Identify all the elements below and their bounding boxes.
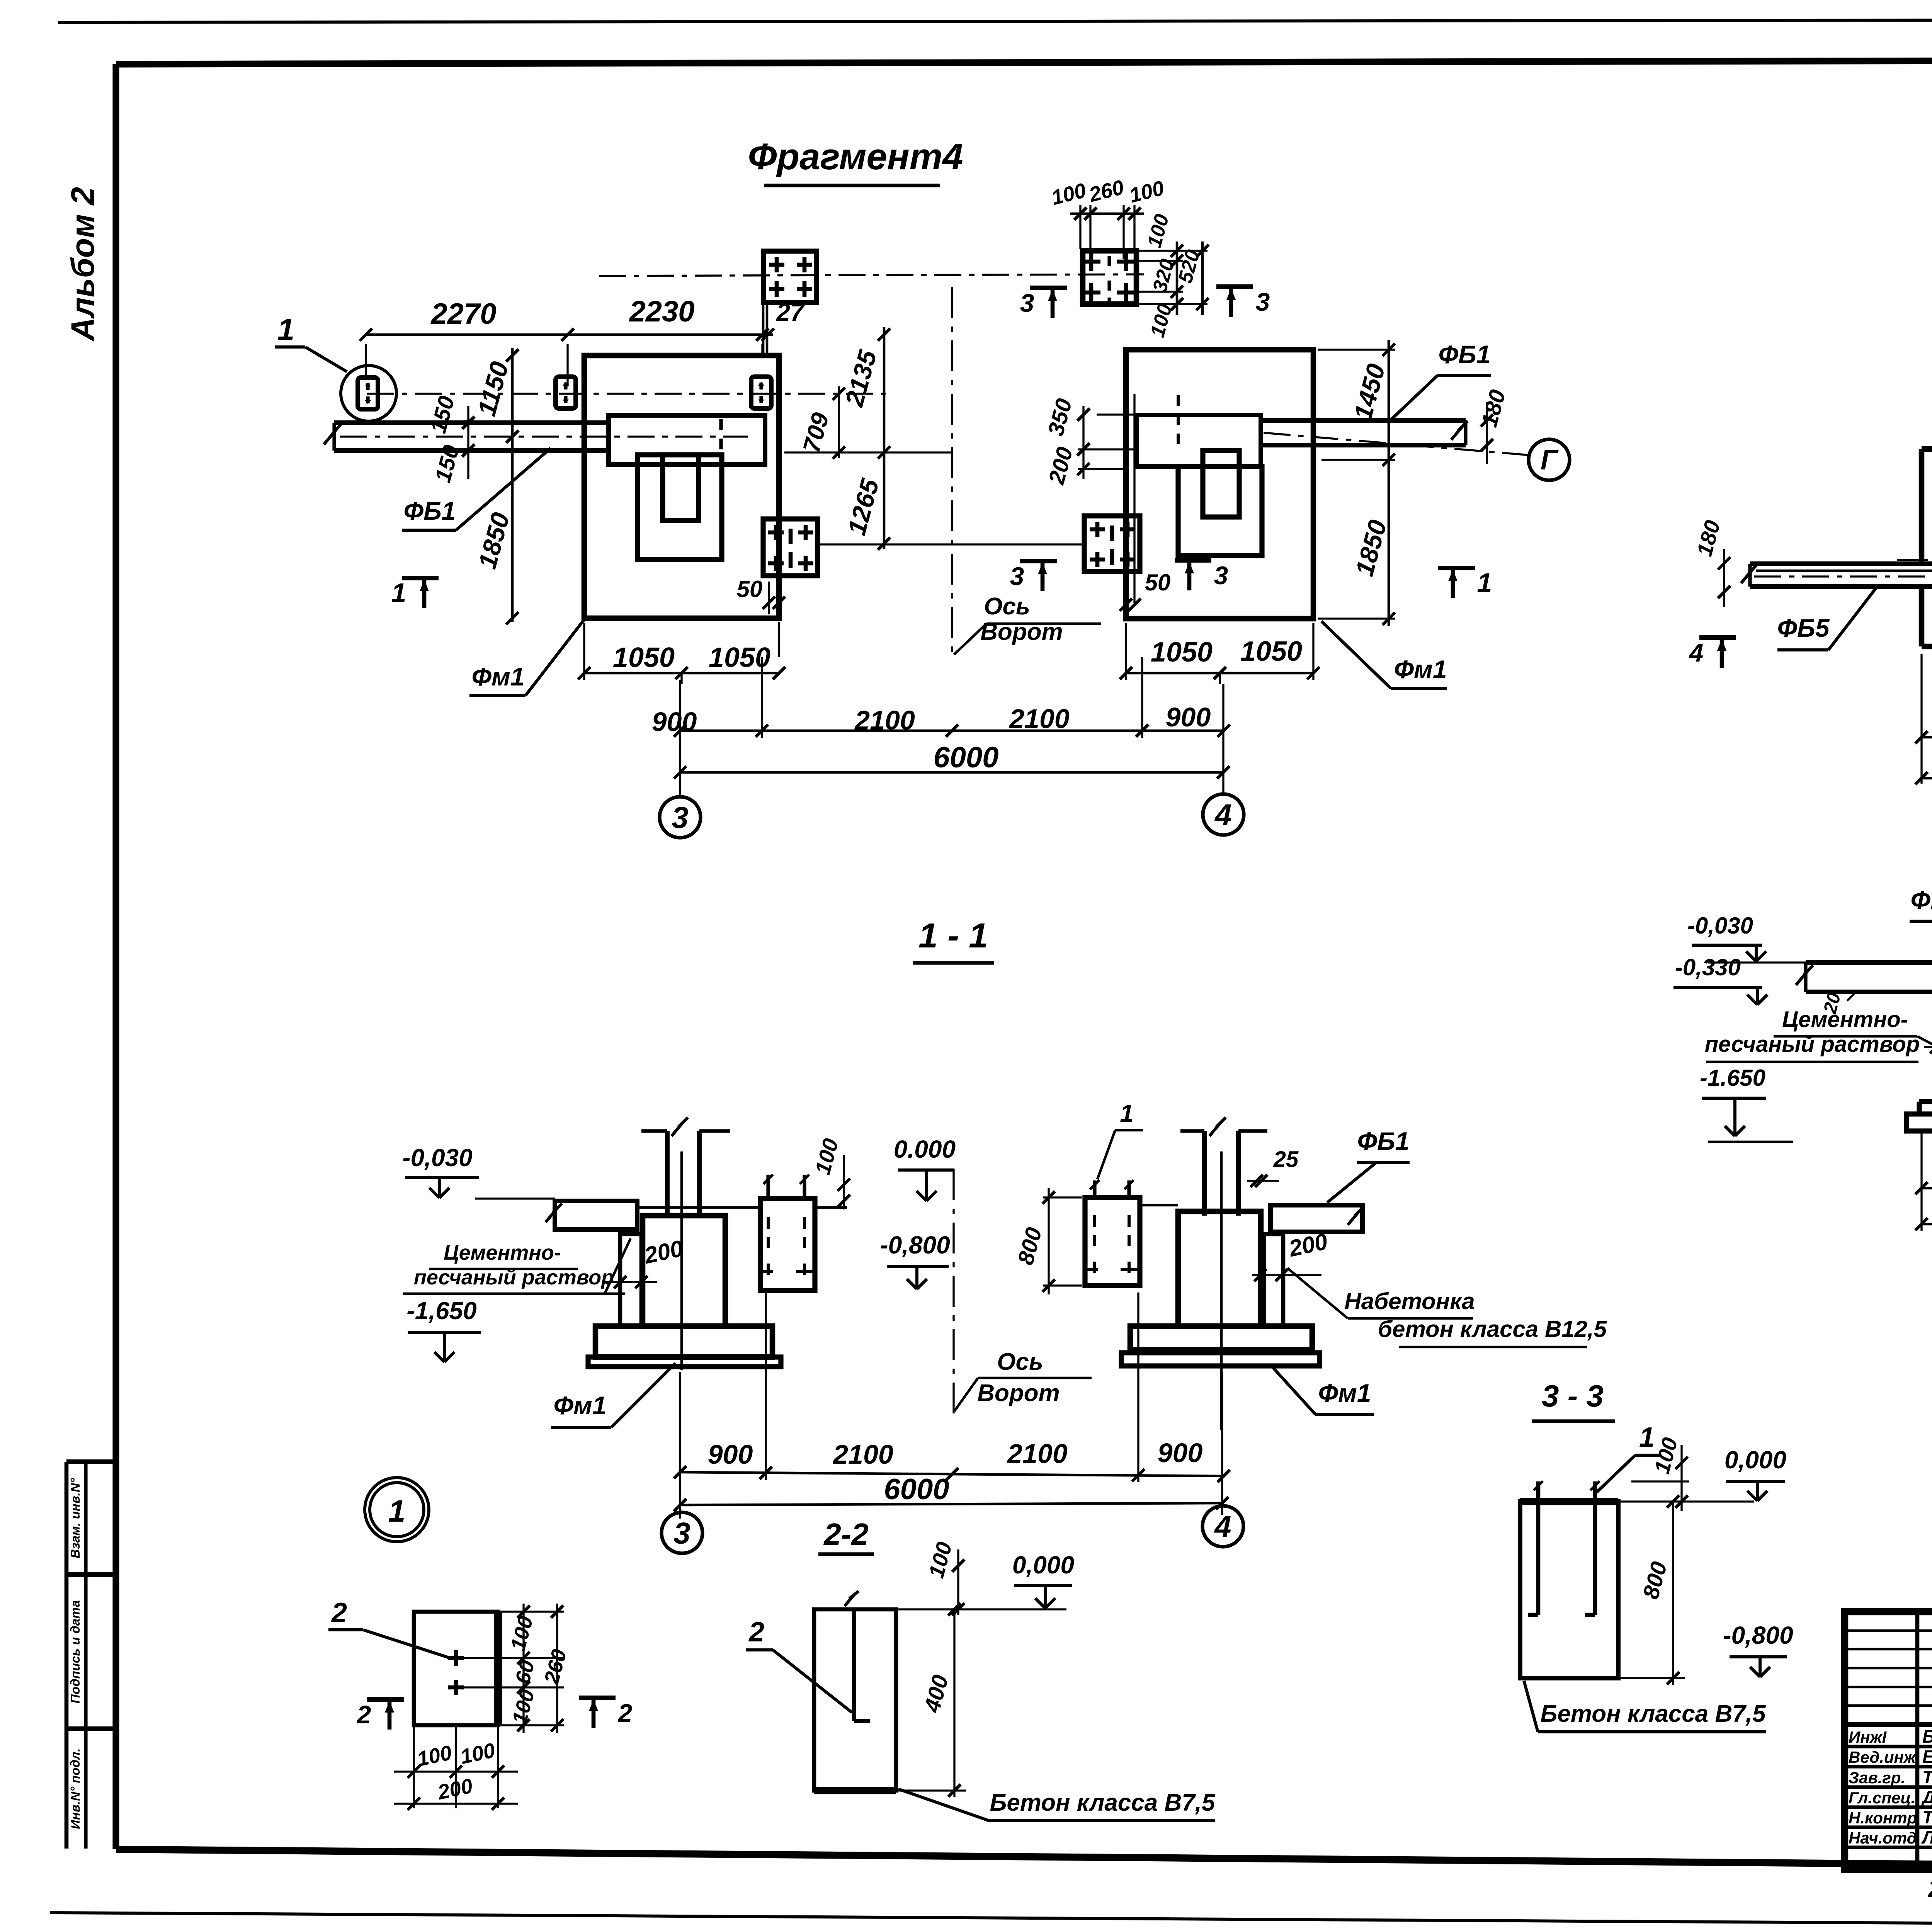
column (section 1-1 right) (1180, 1117, 1267, 1216)
svg-text:Фм1: Фм1 (553, 1391, 606, 1420)
dimension 800 (section right) (1013, 1188, 1082, 1294)
ось ворот (section 1-1) (952, 1169, 954, 1417)
floor level line (section left) (637, 1206, 847, 1209)
svg-text:песчаный раствор: песчаный раствор (414, 1266, 614, 1289)
svg-text:-0,800: -0,800 (1723, 1621, 1793, 1649)
dimension text 1050 c (1151, 637, 1213, 668)
dimension text 1050 b (709, 642, 770, 673)
svg-text:6000: 6000 (884, 1473, 949, 1506)
axis circle 3 (plan) (660, 797, 701, 838)
text 25388-02 22 below title block (1928, 1875, 1932, 1903)
svg-text:Трубникова: Трубникова (1922, 1807, 1932, 1827)
dimension text 6000 (section) (884, 1473, 949, 1506)
foundation Фм1 right beam pocket (1136, 415, 1261, 466)
beam ФБ5 left (plan) (1741, 563, 1932, 587)
title section 3-3 (1532, 1379, 1615, 1421)
foundation right pocket dashed line (1177, 395, 1180, 448)
detail circle 1 (365, 1478, 429, 1542)
label ФБ5 (section 4-4) (1910, 886, 1932, 961)
vertical label Альбом 2 (65, 187, 101, 342)
svg-text:2100: 2100 (1009, 704, 1070, 734)
extension line y1407 (819, 543, 1084, 545)
label Фм1 (section right) (1273, 1368, 1374, 1414)
dimension 200 (section right) (1252, 1228, 1330, 1281)
scan sheet bottom edge line (50, 1913, 1932, 1927)
detail plate 2 bolts (448, 1650, 464, 1695)
svg-text:-0,030: -0,030 (1687, 913, 1753, 939)
level ext line -0,030 (475, 1197, 555, 1199)
centerline frag5 horizontal (1897, 560, 1932, 561)
dimension 1600/2600 (4-4) (1915, 1133, 1932, 1231)
dimension text 2100 b (1009, 704, 1070, 734)
beam ФБ1 left (plan) (324, 423, 609, 451)
dimension 100 (detail 3-3) (1631, 1435, 1689, 1511)
dimension 800 (detail 3-3) (1621, 1495, 1685, 1685)
label ФБ1 (plan left) (402, 448, 551, 530)
section mark 4 (frag5 left) (1689, 638, 1736, 668)
dimension text 27 (776, 298, 805, 326)
title section 1-1 (913, 917, 994, 963)
svg-text:-0,330: -0,330 (1675, 954, 1741, 980)
dimension extension lines top (366, 344, 762, 386)
svg-text:2270: 2270 (430, 298, 496, 330)
top plate drop lines (763, 305, 767, 355)
scan sheet top edge line (58, 19, 1932, 22)
svg-text:900: 900 (1158, 1438, 1203, 1468)
dimension 25 (section right) (1247, 1147, 1299, 1187)
callout 2 (detail) (328, 1597, 451, 1658)
dimension text 2100 c (832, 1439, 893, 1469)
dimension 200 (section left) (603, 1235, 685, 1288)
svg-text:Вед.инж: Вед.инж (1849, 1748, 1917, 1766)
dimension 400 (detail 2-2) (898, 1603, 966, 1797)
dimension 180 (frag5 beam left) (1692, 518, 1750, 607)
dimension 100 (detail 2-2) (924, 1539, 964, 1616)
level mark 0.000 (section) (894, 1135, 956, 1201)
attribute cell text Подпись и дата (68, 1600, 82, 1704)
detail 2-2 hook bar (845, 1591, 870, 1721)
beam ФБ1 right centerline (1264, 433, 1530, 455)
section mark 2 (detail right) (579, 1698, 633, 1728)
pedestal Фм1 (section left) (643, 1216, 725, 1326)
title block main horizontal line (1845, 1722, 1932, 1727)
foundation Фм1 left outline (584, 355, 779, 618)
dimension text 2100 a (854, 705, 915, 735)
svg-text:-0,030: -0,030 (402, 1144, 472, 1172)
detail 3-3 outline (1520, 1502, 1618, 1678)
svg-text:Подпись и дата: Подпись и дата (68, 1600, 82, 1704)
axis circle 4 (section) (1202, 1506, 1243, 1547)
svg-text:2100: 2100 (832, 1439, 893, 1469)
dimension line 2135/1265 (right of left fdn) (878, 327, 890, 550)
dimension text 2100 d (1007, 1439, 1068, 1469)
section mark 3 (bottom left) (1010, 561, 1057, 591)
svg-text:27: 27 (776, 298, 805, 326)
label Цементно-песчаный раствор (4-4) (1705, 1007, 1932, 1062)
top anchor plate (right foundation) (1082, 251, 1136, 304)
dimension text 2230 (628, 295, 694, 328)
svg-text:0.000: 0.000 (894, 1135, 956, 1163)
base slab Фм1 (section left) (588, 1357, 781, 1367)
beam ФБ1 centerline (340, 435, 748, 437)
foundation Фм7 body (section 4-4) (1919, 977, 1932, 1114)
svg-text:ИнжI: ИнжI (1849, 1728, 1887, 1746)
svg-text:Ворот: Ворот (977, 1380, 1060, 1406)
svg-text:Зав.гр.: Зав.гр. (1849, 1769, 1905, 1787)
extension line 50 right fdn (1133, 394, 1135, 603)
column centerline (section 1-1 right) (1220, 1151, 1223, 1430)
foundation Фм1 right outline (1126, 350, 1313, 619)
svg-text:Трубникова: Трубникова (1922, 1767, 1932, 1787)
dimension line 1050/1050 (left fdn) (578, 623, 785, 684)
svg-text:2100: 2100 (854, 705, 915, 735)
callout 2 (detail 2-2) (746, 1617, 852, 1713)
svg-text:2: 2 (331, 1597, 347, 1628)
attribute cell text Инв. № подл. (68, 1748, 82, 1829)
svg-text:1050: 1050 (1240, 636, 1302, 667)
foundation Фм1 left pocket dashed end (719, 419, 723, 462)
svg-text:Фм1: Фм1 (1318, 1379, 1371, 1407)
anchor bolts (section left) (764, 1175, 809, 1199)
svg-text:1: 1 (1477, 568, 1492, 598)
svg-text:Бетон класса В7,5: Бетон класса В7,5 (1541, 1701, 1766, 1727)
section mark 1 (plan left) (391, 578, 439, 608)
level 0,000 (detail 2-2) (898, 1551, 1074, 1609)
level mark -0,030 (402, 1144, 479, 1198)
dimension text 2270 (430, 298, 496, 330)
dimension text 1450 (1348, 361, 1391, 423)
label Бетон класса В7,5 (detail 3-3) (1524, 1681, 1766, 1732)
svg-text:3: 3 (673, 1516, 690, 1550)
plate dims 100 260 100 (top) (1049, 176, 1167, 259)
dimension text 1050 a (613, 642, 675, 673)
dimension 250 (4-4) (1924, 1012, 1932, 1053)
svg-text:Егоров: Егоров (1922, 1747, 1932, 1767)
mortar strip (section left) (620, 1234, 641, 1326)
section mark 3 (bottom right) (1175, 560, 1228, 590)
svg-text:1 - 1: 1 - 1 (918, 917, 988, 955)
plate E leader line (0, 0, 0, 0)
ось ворот centerline (951, 287, 953, 656)
foundation Фм7 base slab (4-4) (1906, 1114, 1932, 1131)
beam ФБ5 centerline (1754, 575, 1932, 577)
title block signature rows text (1849, 1726, 1932, 1847)
dimension 20 (4-4) (1820, 990, 1855, 1016)
foundation Фм1 left beam pocket (609, 415, 765, 464)
svg-text:Гл.спец.: Гл.спец. (1849, 1789, 1915, 1807)
dimension text 900 a (652, 707, 697, 737)
level -0,800 (detail 3-3) (1723, 1621, 1793, 1677)
section mark 3 (top right) (1216, 287, 1270, 317)
label Ось ворот (section 1-1) (954, 1349, 1092, 1411)
dimension line 900/2100/2100/900 (section) (674, 1293, 1230, 1482)
svg-text:6000: 6000 (933, 741, 998, 774)
svg-text:Н.контр: Н.контр (1849, 1809, 1917, 1827)
foundation Фм1 right U-shape inner (1203, 451, 1239, 517)
dimension 4200 (4-4) (1915, 1189, 1932, 1230)
dimension 1450/1850 (right fdn) (1318, 340, 1395, 626)
svg-text:ФБ1: ФБ1 (1439, 340, 1491, 369)
dimension text 1050 d (1240, 636, 1302, 667)
label Цементно-песчаный раствор (1-1) (403, 1238, 631, 1294)
svg-text:-1.650: -1.650 (1700, 1065, 1765, 1091)
svg-text:1: 1 (388, 1494, 406, 1528)
svg-text:Лебедев: Лебедев (1921, 1827, 1932, 1847)
svg-text:Бурмистрова: Бурмистрова (1922, 1726, 1932, 1747)
svg-text:1: 1 (1120, 1099, 1134, 1127)
foundation Фм7 outline (plan) (1922, 449, 1932, 646)
column centerline (section 1-1 left) (680, 1151, 683, 1370)
svg-text:900: 900 (1166, 702, 1211, 732)
level -0,330 (4-4) (1673, 954, 1767, 1005)
svg-text:25: 25 (1273, 1147, 1299, 1172)
anchor plate D (left fdn right edge) (763, 519, 818, 576)
svg-text:4: 4 (1214, 798, 1231, 832)
svg-text:0,000: 0,000 (1012, 1551, 1074, 1579)
top anchor plate (left foundation) (764, 251, 816, 303)
detail 3-3 anchor bolts (1528, 1481, 1600, 1615)
drawing frame top line (116, 60, 1932, 64)
anchor plate B (plan left) (556, 377, 576, 408)
beam ФБ1 (section right) (1270, 1205, 1364, 1232)
svg-text:Фм1: Фм1 (1394, 655, 1447, 684)
dimension text 900 b (1166, 702, 1211, 732)
anchor bolts (section right) (1090, 1180, 1134, 1197)
svg-text:Бетон класса В7,5: Бетон класса В7,5 (990, 1789, 1216, 1816)
svg-text:1: 1 (391, 578, 406, 608)
foundation Фм1 left U-shape outer (638, 455, 722, 560)
anchor plate C (plan left) (751, 377, 771, 408)
dimension 150/150 (beam) (425, 393, 474, 485)
pedestal Фм1 (section right) (1178, 1211, 1261, 1326)
svg-text:3: 3 (672, 800, 688, 834)
label ФБ5 (frag5 left) (1777, 588, 1876, 650)
beam ФБ1 (section left) (546, 1201, 637, 1230)
svg-text:50: 50 (737, 576, 763, 602)
dimension text 6000 (plan) (933, 741, 998, 774)
svg-text:2100: 2100 (1007, 1439, 1068, 1469)
dimension 100 (section left) (810, 1136, 850, 1209)
axis circle 3 (section) (662, 1512, 702, 1553)
svg-text:Взам. инв.N°: Взам. инв.N° (68, 1478, 82, 1558)
svg-text:Дыба: Дыба (1921, 1787, 1932, 1807)
svg-text:1: 1 (277, 312, 295, 347)
dimension 50 (left fdn) (737, 576, 785, 657)
svg-text:2: 2 (356, 1700, 371, 1729)
label Бетон класса В7,5 (detail 2-2) (898, 1789, 1216, 1821)
svg-text:3: 3 (1020, 289, 1034, 317)
anchor plate E (right fdn left edge) (1084, 516, 1140, 571)
svg-text:3: 3 (1010, 562, 1024, 590)
svg-text:2: 2 (617, 1699, 633, 1727)
svg-text:900: 900 (652, 707, 697, 737)
drawing frame left line (112, 64, 119, 1849)
svg-text:2-2: 2-2 (823, 1517, 869, 1551)
anchor box (section right) (1085, 1197, 1140, 1286)
dimension text 900 c (708, 1439, 753, 1469)
dimension line 1150/1850 (left) (506, 348, 519, 624)
label Ось Ворот (plan) (954, 593, 1101, 655)
dimension 1600/2600 (frag5) (1915, 654, 1932, 784)
step Фм1 (section left) (595, 1326, 772, 1357)
title block signature rows (1845, 1747, 1932, 1847)
title block upper thin rows (1845, 1631, 1932, 1706)
dimension line 1050/1050 (right fdn) (1120, 623, 1320, 684)
svg-text:Фрагмент4: Фрагмент4 (748, 136, 963, 177)
dimension 180 (beam right) (1476, 387, 1510, 464)
svg-text:25388-02 22: 25388-02 22 (1928, 1875, 1932, 1903)
axis circle 4 (plan) (1203, 794, 1244, 835)
svg-text:бетон класса В12,5: бетон класса В12,5 (1378, 1316, 1607, 1342)
svg-text:4: 4 (1689, 638, 1704, 667)
dimension text 2135 (840, 347, 882, 410)
beam ФБ1 right (plan) (1261, 420, 1468, 445)
callout 1 (detail 3-3) (1597, 1422, 1662, 1492)
callout circle pos.1 (341, 366, 396, 421)
beam ФБ5 (section 4-4) (1796, 963, 1932, 992)
foundation Фм1 right U-shape outer (1178, 466, 1262, 556)
axis circle Г (1529, 439, 1570, 480)
dimension line 2270/2230 (360, 328, 774, 341)
svg-text:песчаный раствор: песчаный раствор (1705, 1032, 1920, 1057)
level -0,030 (4-4) (1687, 913, 1806, 963)
anchor box (section left) (760, 1199, 815, 1291)
detail 2-2 outline (814, 1609, 896, 1791)
svg-text:Набетонка: Набетонка (1344, 1288, 1475, 1314)
svg-text:Альбом 2: Альбом 2 (65, 187, 101, 342)
svg-text:ФБ5: ФБ5 (1777, 614, 1830, 642)
svg-text:1050: 1050 (1151, 637, 1213, 668)
svg-text:ФБ1: ФБ1 (1357, 1127, 1410, 1155)
label ФБ1 (section right) (1327, 1127, 1410, 1202)
base slab Фм1 (section right) (1121, 1353, 1320, 1366)
svg-text:Инв.N° подл.: Инв.N° подл. (68, 1748, 82, 1829)
title Фрагмент 4 (748, 136, 963, 185)
detail plate 2 outline (414, 1612, 498, 1725)
level mark -1,650 (406, 1297, 481, 1362)
main title block frame (1845, 1612, 1932, 1869)
svg-text:50: 50 (1145, 570, 1171, 595)
svg-text:1050: 1050 (613, 642, 675, 673)
attribute cell text Взам. инв. № (68, 1478, 82, 1558)
dimension line 709 (798, 386, 845, 459)
label Набетонка бетон класса В12,5 (1287, 1268, 1607, 1347)
svg-text:ФБ5: ФБ5 (1911, 886, 1932, 914)
dimension 4200 (frag5) (1915, 654, 1932, 784)
svg-text:1: 1 (1639, 1422, 1655, 1453)
level mark -0,800 (section) (880, 1231, 950, 1289)
dimension line 6000 (plan) (674, 680, 1230, 795)
dimension 350/200 (right fdn) (1043, 396, 1136, 487)
mortar strip (section right) (1264, 1234, 1283, 1326)
title block signature column lines (1917, 1612, 1932, 1869)
svg-text:ФБ1: ФБ1 (404, 497, 456, 525)
floor level line (section right) (1141, 1204, 1178, 1207)
detail 2 dims bottom (394, 1727, 518, 1810)
foundation Фм1 left U-shape inner (663, 455, 699, 520)
svg-text:Фм1: Фм1 (471, 662, 524, 691)
svg-text:Ось: Ось (997, 1349, 1043, 1375)
section mark 2 (detail left) (356, 1699, 404, 1730)
callout 1 (section right) (1097, 1099, 1143, 1179)
label Фм1 (section left) (551, 1363, 675, 1427)
label ФБ1 (plan right) (1391, 340, 1491, 420)
dimension text 1850 left (473, 509, 515, 571)
plate dims 100 320 100 520 (right) (1128, 212, 1209, 340)
svg-text:2: 2 (748, 1617, 764, 1648)
svg-text:Цементно-: Цементно- (444, 1241, 561, 1264)
svg-text:900: 900 (708, 1439, 753, 1469)
title section 2-2 (818, 1517, 874, 1554)
svg-text:2230: 2230 (628, 295, 694, 328)
drawing frame bottom line (116, 1849, 1932, 1870)
section mark 3 (top left) (1020, 288, 1067, 318)
anchor plate in callout circle (358, 378, 378, 409)
dimension line 900/2100/2100/900 (plan) (674, 657, 1230, 738)
svg-text:Нач.отд: Нач.отд (1849, 1829, 1917, 1847)
label Фм1 (plan right) (1321, 621, 1447, 689)
svg-text:Ось: Ось (984, 593, 1030, 620)
dimension text 1265 (842, 475, 884, 538)
svg-text:-0,800: -0,800 (880, 1231, 950, 1259)
dimension text 900 d (1158, 1438, 1203, 1468)
svg-text:Цементно-: Цементно- (1782, 1007, 1908, 1032)
plates centerline (plan left) (367, 393, 886, 395)
svg-text:0,000: 0,000 (1725, 1446, 1786, 1474)
extension line y1171 (784, 451, 952, 453)
dimension text 1850 right (1350, 517, 1392, 579)
dimension text 1150 (472, 359, 514, 419)
level -1.650 (4-4) (1700, 1065, 1793, 1142)
level 0,000 (detail 3-3) (1621, 1446, 1786, 1502)
dimension line 6000 (section) (674, 1372, 1228, 1519)
svg-text:-1,650: -1,650 (406, 1297, 476, 1325)
label Фм1 (plan left) (469, 617, 586, 696)
step Фм1 (section right) (1130, 1326, 1312, 1350)
svg-text:3 - 3: 3 - 3 (1542, 1379, 1604, 1413)
svg-text:3: 3 (1256, 287, 1270, 316)
plates centerline (plan right) (599, 274, 1144, 276)
section mark 1 (plan right) (1438, 568, 1492, 598)
attribute column box (66, 1462, 116, 1849)
svg-text:4: 4 (1214, 1509, 1231, 1543)
detail 2 dims right (464, 1604, 571, 1733)
column (section 1-1 left) (641, 1117, 730, 1216)
svg-text:3: 3 (1214, 561, 1228, 590)
svg-text:Г: Г (1541, 445, 1559, 476)
dimension 50 (right fdn) (1120, 570, 1170, 611)
callout pos.1 label (275, 312, 347, 372)
